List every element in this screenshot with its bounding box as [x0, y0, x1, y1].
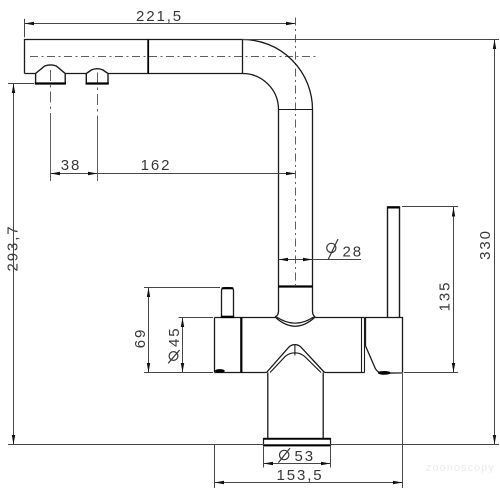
dim 135 arrow bottom [452, 363, 455, 373]
aerator housing 1 [36, 65, 66, 84]
dim d28 arrow right [303, 258, 313, 261]
elbow inner arc [243, 74, 279, 110]
dim 221,5 arrow left [25, 22, 35, 25]
spout curve-start joint [242, 40, 244, 74]
riser lower joint [279, 285, 313, 287]
dim 293,7 arrow bottom [12, 435, 15, 445]
cone inner chevron [270, 353, 321, 373]
dim d53 arrow left [264, 462, 274, 465]
dim d45 arrow bottom [181, 363, 184, 373]
cone outer chevron [267, 345, 325, 373]
riser-body saddle curves [275, 317, 315, 326]
body bottom edge [215, 372, 365, 374]
dim 293,7 ext top [8, 83, 34, 85]
dim d45 line [182, 318, 184, 373]
elbow-riser joint [279, 109, 313, 111]
dim 221,5 ext left [24, 19, 26, 37]
baseline ext [8, 444, 499, 446]
filter knob [222, 288, 234, 318]
dim 69 line [148, 288, 150, 373]
body right double line [362, 318, 365, 373]
dim 330 arrow bottom [493, 435, 496, 445]
dim 293,7 arrow top [12, 84, 15, 94]
centerline aerator 2 [97, 73, 99, 182]
dim 69 arrow bottom [147, 363, 150, 373]
centerline spout horizontal [30, 56, 318, 58]
dim 38 arrow left [51, 172, 61, 175]
body left seam dot [215, 369, 225, 373]
lever rod [388, 207, 400, 318]
svg-text:38: 38 [61, 157, 82, 174]
dim d53 ext right [330, 447, 332, 468]
svg-text:135: 135 [437, 281, 454, 312]
svg-text:zoonoscopy: zoonoscopy [426, 462, 495, 474]
elbow outer arc [243, 40, 313, 110]
dim d53 symbol [280, 450, 289, 459]
dim 153,5 arrow right [393, 481, 403, 484]
dim 162 arrow right [286, 172, 296, 175]
svg-text:293,7: 293,7 [4, 224, 21, 271]
svg-text:153,5: 153,5 [276, 467, 323, 484]
spout joint line [147, 40, 149, 74]
base column [268, 373, 323, 439]
svg-text:162: 162 [141, 157, 172, 174]
dim d45 arrow top [181, 318, 184, 328]
lever mount [366, 318, 403, 374]
svg-text:45: 45 [166, 327, 183, 348]
dim 330 arrow top [493, 40, 496, 50]
svg-text:69: 69 [132, 328, 149, 349]
aerator 2 bottom edge [86, 82, 109, 84]
base plate bottom edge [264, 444, 331, 446]
dim 135 arrow top [452, 207, 455, 217]
spout bar outline [25, 40, 243, 74]
dim 69 arrow top [147, 288, 150, 298]
dim d28 arrow left [279, 258, 289, 261]
dim 153,5 ext left [214, 445, 216, 488]
body left edge [214, 318, 216, 373]
dim 135 ext top [402, 206, 458, 208]
dim 221,5 line [25, 23, 296, 25]
body top edge [215, 317, 365, 319]
dim 135 line [453, 207, 455, 373]
dim 69 ext top [144, 287, 220, 289]
riser left edge [275, 110, 279, 318]
svg-text:221,5: 221,5 [136, 8, 183, 25]
riser right edge [313, 110, 316, 318]
dim 330 ext top [243, 39, 500, 41]
dim 38 line [51, 173, 98, 175]
dim d45 symbol [169, 352, 178, 361]
dim 330 line [494, 40, 496, 445]
dim 69 ext bottom [144, 372, 213, 374]
lever rod top edge [388, 206, 400, 208]
body joint line [240, 318, 242, 373]
dim d53 ext left [263, 447, 265, 468]
dim d53 arrow right [321, 462, 331, 465]
dim 135 ext bottom [404, 372, 458, 374]
centerline riser vertical [295, 18, 297, 286]
spout bar bottom edge segments [25, 73, 243, 75]
base plate [264, 439, 331, 446]
dim 293,7 line [13, 84, 15, 445]
lever mount shadow [378, 371, 391, 375]
cone peak tick [294, 345, 296, 356]
svg-text:28: 28 [343, 243, 364, 260]
dim 153,5 line [215, 482, 403, 484]
centerline aerator 1 [50, 70, 52, 181]
dim d28 symbol [327, 243, 336, 252]
dim d45 ext top [179, 317, 214, 319]
dim 221,5 arrow right [286, 22, 296, 25]
svg-text:53: 53 [295, 448, 316, 465]
dim 38 arrow right [88, 172, 98, 175]
dim 153,5 ext right [402, 374, 404, 489]
svg-text:330: 330 [477, 229, 494, 260]
dim d28 line [279, 259, 362, 261]
base plate top edge [264, 438, 331, 440]
aerator 1 bottom edge [35, 82, 66, 84]
filter knob base seam [221, 316, 234, 318]
aerator housing 2 [86, 69, 108, 84]
dim 162 line [98, 173, 296, 175]
filter knob top edge [222, 287, 234, 289]
dim d53 line [264, 463, 331, 465]
dim 153,5 arrow left [215, 481, 225, 484]
